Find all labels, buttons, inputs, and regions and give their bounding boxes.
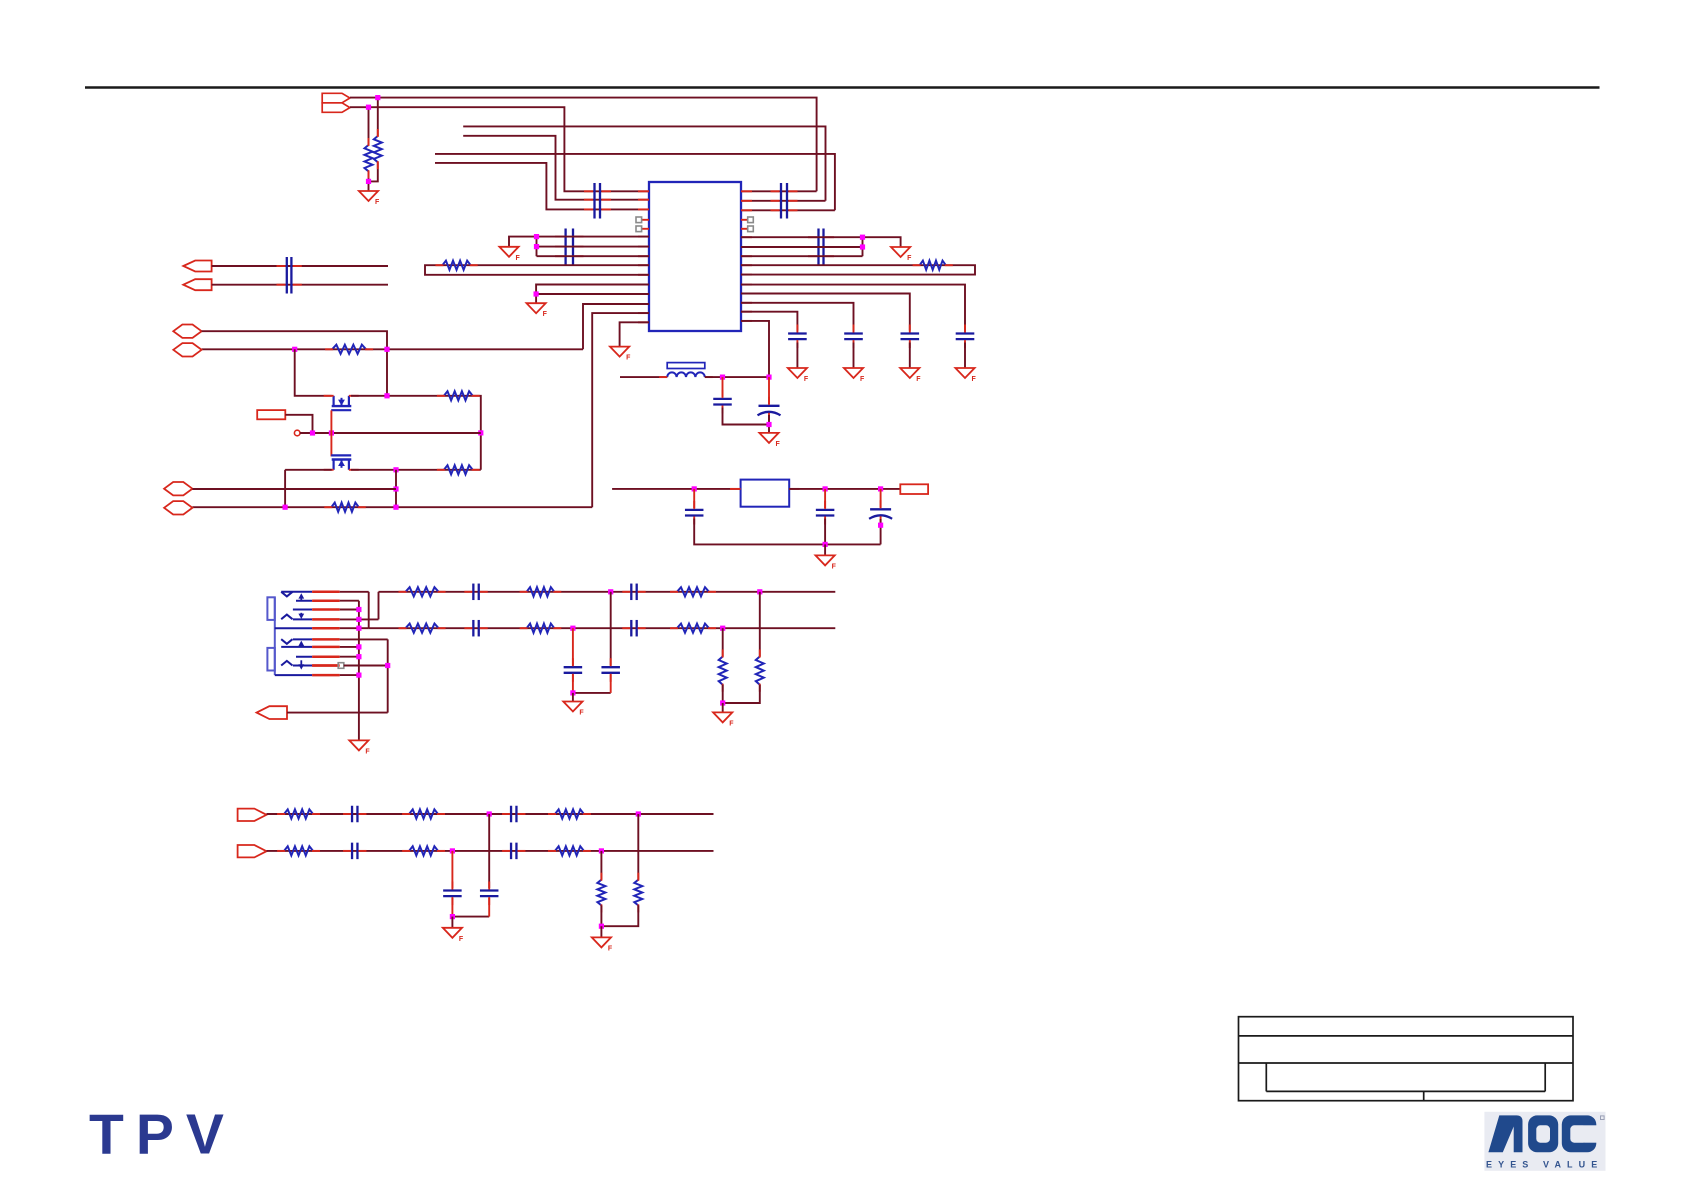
svg-text:F: F	[776, 441, 781, 448]
svg-text:F: F	[459, 936, 464, 943]
svg-text:F: F	[543, 311, 548, 318]
svg-text:F: F	[365, 748, 370, 755]
svg-text:F: F	[916, 376, 921, 383]
svg-text:TPV: TPV	[89, 1102, 236, 1166]
svg-text:F: F	[907, 255, 912, 262]
svg-text:EYES VALUE: EYES VALUE	[1486, 1159, 1603, 1169]
svg-text:F: F	[516, 255, 521, 262]
svg-text:F: F	[579, 710, 584, 717]
svg-text:F: F	[608, 945, 613, 952]
svg-text:F: F	[729, 720, 734, 727]
svg-text:F: F	[860, 376, 865, 383]
svg-text:F: F	[972, 376, 977, 383]
svg-text:F: F	[375, 199, 380, 206]
svg-text:F: F	[832, 563, 837, 570]
svg-text:F: F	[804, 376, 809, 383]
svg-text:F: F	[626, 355, 631, 362]
